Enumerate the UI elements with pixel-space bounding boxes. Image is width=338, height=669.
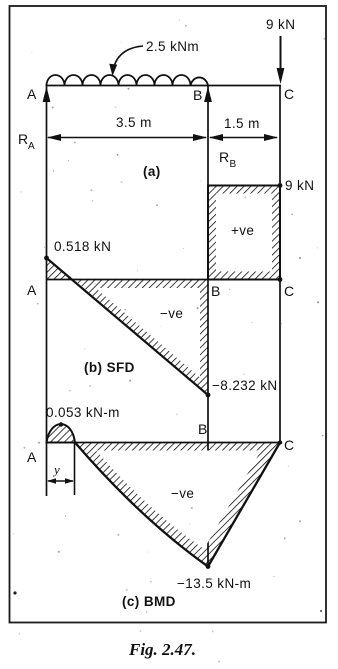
node dot hump peak: [59, 422, 63, 426]
dimension line 3.5 m: [47, 115, 207, 141]
dimension arrow y: [47, 462, 74, 484]
point load arrow at C: [277, 36, 285, 84]
svg-text:C: C: [284, 437, 294, 453]
SFD +ve label: [231, 223, 254, 238]
node label B (SFD): [211, 283, 221, 299]
sub-figure label (b) SFD: [84, 360, 135, 375]
node label A (beam): [27, 86, 37, 102]
svg-text:(a): (a): [143, 164, 161, 179]
node dot at 9kN level: [278, 183, 283, 188]
SFD -8.232 kN label: [212, 378, 278, 393]
svg-text:(b) SFD: (b) SFD: [84, 360, 135, 375]
leader arrow to UDL: [109, 46, 143, 76]
BMD negative region hatched border: [75, 443, 280, 567]
svg-text:A: A: [27, 86, 37, 102]
svg-text:A: A: [27, 282, 37, 298]
node dot BMD at C: [278, 440, 282, 444]
node dot at C baseline: [278, 277, 283, 282]
BMD curve A to B: [75, 443, 208, 567]
BMD line B to C: [208, 443, 280, 567]
svg-text:B: B: [193, 87, 203, 103]
node dot SFD at A 0.518: [44, 256, 49, 261]
svg-text:0.053 kN-m: 0.053 kN-m: [46, 405, 120, 420]
vertical reference line at B: [207, 86, 209, 567]
BMD 0.053 kN-m label: [46, 405, 120, 420]
sub-figure label (a): [143, 164, 161, 179]
node label B (beam): [193, 87, 203, 103]
svg-text:B: B: [198, 421, 208, 437]
SFD zero baseline A-C: [47, 279, 281, 281]
svg-text:(c) BMD: (c) BMD: [122, 594, 176, 609]
sub-figure label (c) BMD: [122, 594, 176, 609]
node dot SFD minimum at B: [206, 393, 211, 398]
SFD positive rectangle B-C hatched border: [208, 186, 280, 280]
SFD negative region hatched border: [74, 280, 208, 396]
svg-text:−ve: −ve: [171, 486, 194, 501]
svg-text:C: C: [284, 283, 294, 299]
svg-text:R: R: [219, 149, 229, 165]
node label A (BMD): [27, 449, 37, 465]
svg-text:−8.232 kN: −8.232 kN: [212, 378, 278, 393]
SFD -ve label: [160, 306, 183, 321]
BMD -13.5 kN-m label: [177, 576, 251, 591]
node label B (BMD): [198, 421, 208, 437]
node label C (BMD): [284, 437, 294, 453]
SFD 9 kN level label: [285, 178, 314, 193]
svg-text:B: B: [211, 283, 221, 299]
svg-text:0.518 kN: 0.518 kN: [54, 239, 111, 254]
dimension line 1.5 m: [209, 116, 278, 141]
SFD small positive triangle at A: [47, 258, 75, 280]
reaction arrow RB: [204, 87, 212, 103]
BMD positive hump at A: [47, 424, 76, 442]
vertical reference line at C: [279, 86, 281, 444]
vertical reference line at A: [46, 86, 48, 497]
figure caption Fig. 2.47.: [128, 640, 196, 659]
svg-text:Fig. 2.47.: Fig. 2.47.: [128, 640, 196, 659]
svg-text:A: A: [27, 449, 37, 465]
svg-text:R: R: [18, 131, 28, 147]
beam A-C: [46, 85, 282, 87]
node label C (beam): [284, 86, 294, 102]
svg-text:−13.5 kN-m: −13.5 kN-m: [177, 576, 251, 591]
SFD 0.518 kN label: [54, 239, 111, 254]
node label C (SFD): [284, 283, 294, 299]
UDL arcs on AB: [47, 75, 209, 85]
svg-text:2.5 kNm: 2.5 kNm: [146, 39, 199, 54]
UDL value label 2.5 kNm: [146, 39, 199, 54]
svg-text:1.5 m: 1.5 m: [224, 116, 260, 131]
node dot BMD minimum at B: [206, 564, 211, 569]
svg-text:C: C: [284, 86, 294, 102]
svg-text:y: y: [52, 462, 60, 477]
reaction label RA: [18, 131, 35, 152]
SFD sloping line A to B: [47, 258, 209, 395]
node label A (SFD): [27, 282, 37, 298]
reaction label RB: [219, 149, 237, 170]
svg-text:B: B: [230, 159, 237, 170]
reaction arrow RA: [43, 87, 51, 103]
point load 9 kN label: [266, 17, 295, 32]
svg-text:9 kN: 9 kN: [285, 178, 314, 193]
svg-text:A: A: [28, 141, 35, 152]
BMD zero baseline A-C: [47, 442, 282, 444]
svg-text:−ve: −ve: [160, 306, 183, 321]
svg-text:3.5 m: 3.5 m: [116, 115, 152, 130]
svg-text:9 kN: 9 kN: [266, 17, 295, 32]
svg-text:+ve: +ve: [231, 223, 254, 238]
short vertical at zero crossing y: [74, 443, 76, 496]
BMD -ve label: [171, 486, 194, 501]
